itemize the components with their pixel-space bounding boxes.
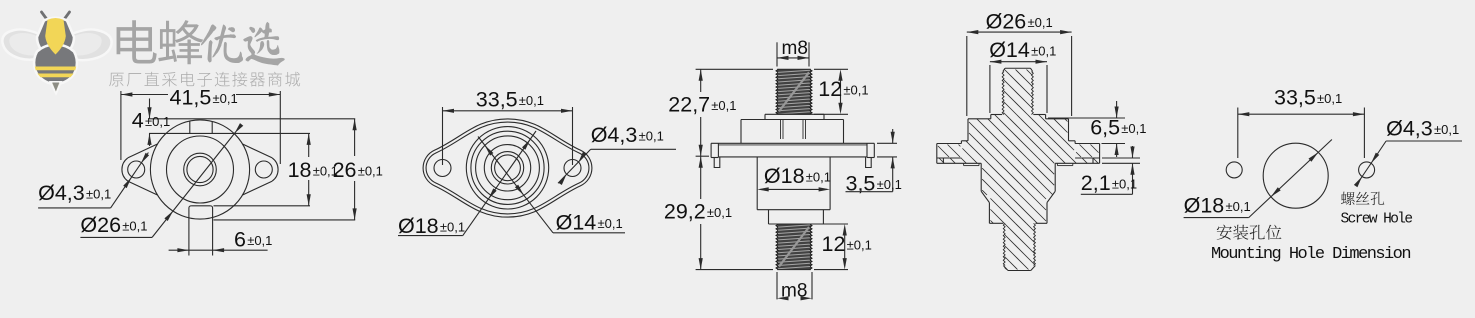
svg-text:12: 12 bbox=[822, 232, 846, 256]
svg-text:±0,1: ±0,1 bbox=[519, 93, 544, 108]
svg-text:22,7: 22,7 bbox=[668, 93, 710, 117]
dimension 33,5 view2 bbox=[442, 107, 444, 165]
svg-text:Ø4,3: Ø4,3 bbox=[38, 181, 85, 205]
svg-text:Ø18: Ø18 bbox=[398, 214, 439, 238]
dimension 6,5 view4 bbox=[1048, 117, 1125, 119]
svg-text:±0,1: ±0,1 bbox=[358, 164, 383, 179]
svg-text:±0,1: ±0,1 bbox=[440, 219, 465, 234]
svg-text:6,5: 6,5 bbox=[1090, 116, 1120, 140]
svg-text:Ø14: Ø14 bbox=[556, 211, 597, 235]
svg-text:4: 4 bbox=[132, 109, 144, 133]
svg-text:Ø14: Ø14 bbox=[989, 38, 1030, 62]
view2 circle ring 2 (Ø18) bbox=[471, 131, 544, 204]
view3 upper box (Ø26 boss side) bbox=[741, 119, 844, 121]
view3 flange plate bbox=[711, 142, 874, 144]
view1 right mounting hole bbox=[255, 161, 272, 178]
dimension 29,2 left bbox=[696, 269, 773, 271]
view3 bottom stud threaded bbox=[777, 224, 811, 270]
view5 Ø18 leader diagonal bbox=[1249, 140, 1332, 218]
view1 extension line bottom tangent (26) bbox=[214, 219, 356, 221]
svg-text:±0,1: ±0,1 bbox=[86, 187, 111, 202]
svg-text:±0,1: ±0,1 bbox=[1317, 91, 1342, 106]
view1 center hole inner bbox=[187, 156, 213, 182]
svg-text:±0,1: ±0,1 bbox=[1121, 121, 1146, 136]
dimension 2,1 view4 bbox=[1102, 157, 1140, 159]
svg-text:±0,1: ±0,1 bbox=[1112, 177, 1137, 192]
dimension 18 right bbox=[308, 133, 310, 157]
view4 wing right bbox=[1075, 143, 1100, 145]
logo subtitle 原厂直采电子连接器商城 bbox=[109, 72, 300, 87]
svg-text:±0,1: ±0,1 bbox=[1028, 15, 1053, 30]
view1 flange tip arcs and sloped edges bbox=[122, 158, 128, 181]
svg-text:±0,1: ±0,1 bbox=[707, 205, 732, 220]
svg-text:Ø4,3: Ø4,3 bbox=[1386, 117, 1433, 141]
dimension 12 bottom stud bbox=[814, 223, 848, 225]
svg-text:±0,1: ±0,1 bbox=[1434, 122, 1459, 137]
view3 top stud threaded bbox=[777, 69, 811, 114]
view5 left screw hole bbox=[1226, 162, 1242, 178]
dimension 41,5 top bbox=[120, 91, 122, 160]
view4 bottom stud thread profile bbox=[1003, 223, 1005, 265]
dimension 4 (boss height) bbox=[149, 99, 151, 119]
svg-text:m8: m8 bbox=[781, 281, 807, 302]
svg-text:Ø4,3: Ø4,3 bbox=[591, 123, 638, 147]
view1 big circle Ø26 boss bbox=[150, 120, 249, 219]
svg-text:Ø26: Ø26 bbox=[986, 9, 1027, 33]
svg-text:±0,1: ±0,1 bbox=[145, 114, 170, 129]
view1 center hole outer bbox=[184, 153, 217, 186]
view2 center hole outer bbox=[491, 152, 523, 184]
view1 top tab (boss projection) bbox=[189, 121, 191, 133]
svg-text:±0,1: ±0,1 bbox=[847, 237, 872, 252]
svg-text:12: 12 bbox=[818, 77, 842, 101]
view2 left mounting hole bbox=[434, 160, 451, 177]
view5 big circle Ø18 bbox=[1263, 143, 1328, 208]
view3 neck below block bbox=[768, 210, 770, 224]
svg-text:±0,1: ±0,1 bbox=[1226, 199, 1251, 214]
svg-text:m8: m8 bbox=[782, 38, 808, 59]
view2 circle ring 3 bbox=[476, 136, 540, 200]
view2 outline outer bbox=[423, 119, 592, 217]
view2 center hole inner bbox=[495, 155, 521, 181]
view3 m8 dimension bottom bbox=[776, 272, 778, 299]
label 螺丝孔 bbox=[1341, 192, 1384, 205]
view2 circle ring 4 (Ø14) bbox=[484, 145, 530, 191]
svg-text:33,5: 33,5 bbox=[476, 88, 518, 112]
svg-text:Ø26: Ø26 bbox=[80, 213, 121, 237]
view2 circle ring 1 bbox=[466, 127, 548, 209]
svg-text:±0,1: ±0,1 bbox=[639, 129, 664, 144]
svg-text:Screw Hole: Screw Hole bbox=[1341, 211, 1413, 227]
view1 circle Ø18 bbox=[167, 136, 234, 203]
svg-text:29,2: 29,2 bbox=[664, 199, 706, 223]
view3 mid block Ø18 bbox=[756, 157, 758, 210]
view1 extension line plate top (18 / 4) bbox=[149, 132, 310, 134]
svg-text:26: 26 bbox=[333, 158, 357, 182]
view1 extension line plate bottom (18) bbox=[214, 205, 311, 207]
svg-text:±0,1: ±0,1 bbox=[1031, 44, 1056, 59]
leader Ø18 diagonal view2 bbox=[463, 131, 536, 236]
svg-text:18: 18 bbox=[288, 158, 312, 182]
svg-text:±0,1: ±0,1 bbox=[806, 169, 831, 184]
leader Ø14 diagonal view2 bbox=[478, 137, 553, 233]
view4 section hatching bbox=[1004, 113, 1006, 115]
dimension 22,7 left bbox=[696, 68, 773, 70]
label 安装孔位 bbox=[1217, 225, 1282, 240]
dimension 3,5 right plate bbox=[877, 142, 897, 144]
view2 outline inner bbox=[426, 122, 589, 214]
view3 hanging rim left bbox=[714, 158, 720, 168]
view2 right mounting hole bbox=[564, 160, 581, 177]
svg-text:±0,1: ±0,1 bbox=[598, 216, 623, 231]
dimension 6 bottom tab bbox=[169, 249, 268, 251]
dimension 26 right bbox=[354, 119, 356, 156]
view4 top stud thread profile bbox=[1002, 72, 1004, 115]
view4 boss row bbox=[968, 118, 991, 120]
view3 m8 dimension top bbox=[776, 42, 778, 66]
svg-text:2,1: 2,1 bbox=[1081, 171, 1111, 195]
view1 bottom tab bbox=[191, 205, 210, 207]
svg-text:Ø18: Ø18 bbox=[1184, 194, 1225, 218]
view4 neck bottom bbox=[989, 222, 1003, 224]
dimension 12 top stud bbox=[814, 68, 848, 70]
view3 hanging rim right bbox=[866, 158, 872, 168]
svg-text:41,5: 41,5 bbox=[170, 85, 212, 109]
svg-text:±0,1: ±0,1 bbox=[247, 233, 272, 248]
view4 boss step bbox=[961, 140, 968, 142]
svg-text:±0,1: ±0,1 bbox=[213, 91, 238, 106]
svg-text:Ø18: Ø18 bbox=[764, 164, 805, 188]
view4 washer step bbox=[991, 114, 1002, 116]
view3 hidden stud lines in box bbox=[780, 120, 782, 140]
svg-text:6: 6 bbox=[234, 228, 246, 252]
svg-text:±0,1: ±0,1 bbox=[122, 219, 147, 234]
svg-text:33,5: 33,5 bbox=[1274, 86, 1316, 110]
view1 extension line top tangent (26) bbox=[149, 118, 355, 120]
svg-text:±0,1: ±0,1 bbox=[711, 98, 736, 113]
svg-text:±0,1: ±0,1 bbox=[877, 177, 902, 192]
view3 washer step under stud bbox=[765, 113, 824, 115]
logo title 电蜂优选 bbox=[117, 20, 285, 65]
view4 wing left bbox=[937, 143, 962, 145]
logo: bee mark bbox=[2, 12, 111, 94]
view1 left mounting hole bbox=[128, 161, 145, 178]
view5 right screw hole bbox=[1359, 162, 1375, 178]
view4 lower body bbox=[980, 163, 982, 191]
svg-text:±0,1: ±0,1 bbox=[843, 83, 868, 98]
svg-text:Mounting Hole Dimension: Mounting Hole Dimension bbox=[1211, 245, 1410, 264]
